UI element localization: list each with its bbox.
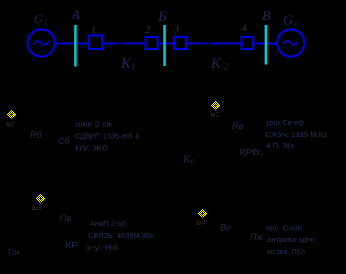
svg-text:СЖУч: 1339 М Ю.: СЖУч: 1339 М Ю. [266,132,329,139]
svg-text:КР: КР [65,241,78,250]
wire [77,43,88,45]
svg-text:К1: К1 [120,56,135,72]
marker diamond D1 [7,110,16,120]
svg-text:Rв: Rв [232,121,243,131]
bus A [74,25,77,67]
svg-text:3: 3 [173,25,179,36]
wire [158,43,164,45]
svg-text:СДВИГ: 1335-ЖВ 4: СДВИГ: 1335-ЖВ 4 [75,134,139,141]
svg-text:Пв: Пв [60,213,72,223]
generator G1 [27,29,54,56]
svg-text:Rб: Rб [30,130,42,140]
svg-text:м2: м2 [6,122,15,129]
marker diamond D3 [36,194,45,204]
wire [186,43,207,45]
marker diamond D2 [211,101,220,111]
svg-text:Вг: Вг [220,223,231,233]
svg-text:Ка: Ка [182,154,194,166]
svg-text:шве 2 сж: шве 2 сж [76,122,113,129]
transformer 3 [174,37,186,49]
wire [267,43,277,45]
svg-text:Gс: Gс [283,14,299,29]
svg-text:урок Св-еф: урок Св-еф [266,120,304,127]
fault point K2 [209,43,211,45]
transformer 2 [146,37,158,49]
wire [212,43,241,45]
svg-text:В: В [262,9,271,24]
svg-text:ш4: ш4 [196,220,206,227]
fault point K1 [120,43,122,45]
svg-text:А: А [71,8,81,23]
wire [103,43,119,45]
svg-text:Пж: Пж [250,232,264,242]
svg-text:ш3: ш3 [32,205,42,212]
transformer 4 [242,37,254,49]
svg-text:СВЯЗЬ: 4639М 30о: СВЯЗЬ: 4639М 30о [88,233,154,240]
bus V right [265,25,268,65]
svg-text:2: 2 [145,25,150,36]
wire [55,43,75,45]
svg-text:КРВ:: КРВ: [240,148,263,157]
svg-text:юг.эва. ПКл: юг.эва. ПКл [267,249,305,256]
svg-text:Сб: Сб [58,136,70,146]
svg-text:антрива эдгю: антрива эдгю [267,237,315,244]
generator Gc system [277,29,304,56]
svg-text:1: 1 [91,25,96,36]
svg-text:НУ. Жб: НУ. Жб [75,144,108,152]
svg-text:Б: Б [157,9,167,25]
svg-text:м2: м2 [211,112,220,119]
svg-text:4: 4 [242,24,247,35]
bus B middle [163,25,166,66]
svg-text:яро: С-нЖ: яро: С-нЖ [266,225,303,232]
svg-text:4 П. Жз: 4 П. Жз [266,143,294,150]
wire [253,43,265,45]
transformer 1 [89,36,103,50]
wire [166,43,174,45]
wire [124,43,145,45]
svg-text:з-у. Яб: з-у. Яб [86,244,118,252]
svg-text:К2: К2 [210,56,229,72]
marker diamond D4 [198,209,207,219]
svg-text:АняП 2-об: АняП 2-об [90,220,126,228]
svg-text:Гок: Гок [8,248,20,257]
svg-text:G1: G1 [34,11,48,27]
